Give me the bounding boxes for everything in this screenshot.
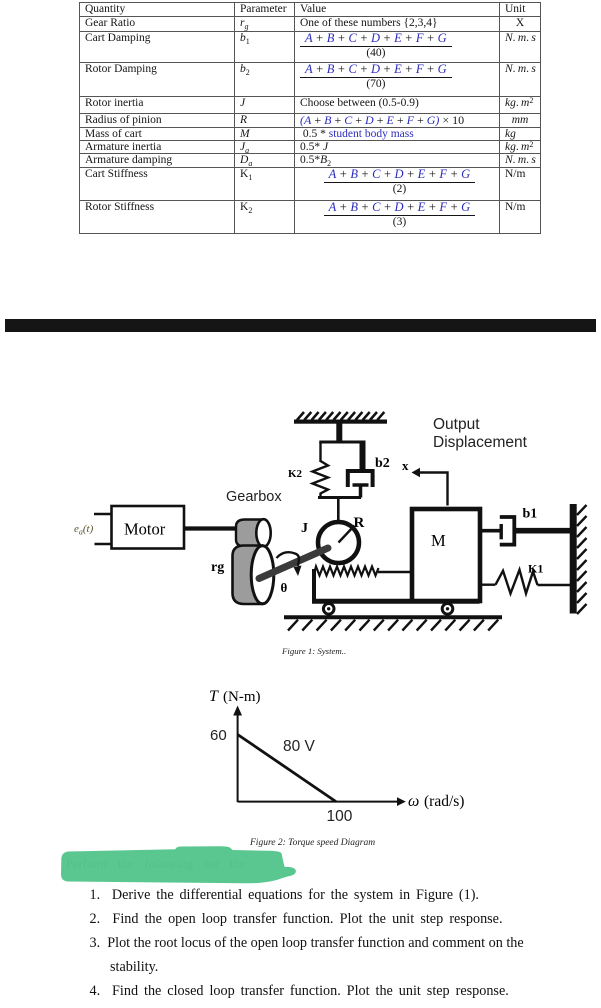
svg-text:K2: K2 xyxy=(288,468,303,480)
svg-text:Figure 2: Torque speed Diagram: Figure 2: Torque speed Diagram xyxy=(249,838,375,848)
svg-text:θ: θ xyxy=(281,580,288,595)
svg-text:b1: b1 xyxy=(523,507,538,522)
svg-text:(rad/s): (rad/s) xyxy=(424,793,464,810)
svg-text:100: 100 xyxy=(327,808,353,825)
svg-text:Displacement: Displacement xyxy=(433,434,528,451)
svg-text:M: M xyxy=(431,531,446,550)
svg-text:J: J xyxy=(301,521,308,536)
svg-text:(N-m): (N-m) xyxy=(223,689,261,705)
svg-text:x: x xyxy=(402,458,409,473)
svg-text:rg: rg xyxy=(211,560,224,575)
svg-text:80 V: 80 V xyxy=(283,738,316,755)
svg-text:b2: b2 xyxy=(375,456,390,471)
svg-text:K1: K1 xyxy=(528,562,543,576)
svg-text:Figure 1: System..: Figure 1: System.. xyxy=(281,646,346,656)
svg-text:T: T xyxy=(209,688,219,705)
svg-text:ea(t): ea(t) xyxy=(74,523,94,537)
svg-text:ω: ω xyxy=(408,793,419,810)
svg-text:60: 60 xyxy=(210,727,227,744)
svg-text:Motor: Motor xyxy=(124,520,166,539)
svg-text:Output: Output xyxy=(433,416,480,433)
svg-text:Gearbox: Gearbox xyxy=(226,489,282,505)
svg-text:R: R xyxy=(354,515,365,531)
